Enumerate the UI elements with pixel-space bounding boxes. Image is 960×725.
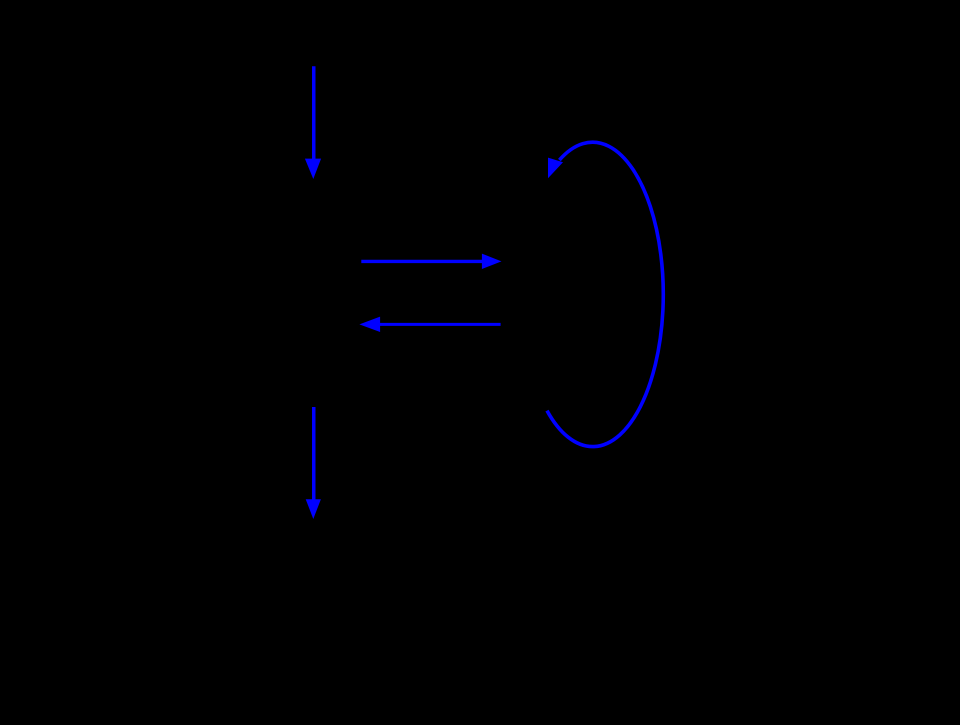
wire: left-pointing arrow shaft (middle lower) xyxy=(378,323,501,326)
node: arrowhead of cycle arc (pointing down-left) xyxy=(548,158,563,179)
node: arrowhead of left-pointing arrow xyxy=(359,317,380,332)
wire: elliptical cycle arc (counterclockwise loop) xyxy=(547,142,663,446)
node: arrowhead of top input arrow xyxy=(305,159,321,179)
wire: top input arrow shaft (vertical, downward) xyxy=(312,66,316,161)
wire: right-pointing arrow shaft (middle upper) xyxy=(361,260,484,263)
node: arrowhead of right-pointing arrow xyxy=(482,254,502,269)
node: arrowhead of bottom output arrow xyxy=(306,499,321,519)
wire: bottom output arrow shaft (vertical, downward) xyxy=(312,407,316,501)
